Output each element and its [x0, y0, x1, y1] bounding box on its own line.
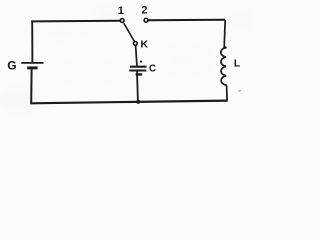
svg-text:K: K: [141, 39, 149, 50]
capacitor C bottom plate: [129, 70, 146, 72]
minus charge mark below capacitor bottom plate: [136, 73, 143, 75]
speck artifact right of bottom-right corner: [238, 90, 241, 92]
capacitor C top plate: [130, 66, 147, 68]
faint scan mottle: [0, 6, 252, 112]
wire: battery G bottom lead: [30, 69, 32, 103]
switch contact 1 (open circle): [120, 19, 124, 23]
battery G short plate: [27, 66, 37, 69]
wire: top horizontal from contact 2 to top-right corner: [148, 19, 225, 21]
svg-text:1: 1: [118, 5, 124, 17]
svg-text:C: C: [149, 64, 156, 75]
svg-text:L: L: [234, 58, 240, 69]
wire: capacitor bottom lead down to junction: [136, 71, 139, 101]
wire: pivot of K down to capacitor: [136, 45, 137, 66]
plus charge dot above capacitor top plate: [140, 61, 142, 63]
wire: top horizontal from battery corner to contact 1: [31, 20, 120, 23]
junction node dot on bottom wire: [136, 100, 140, 104]
wire: left branch top lead of battery G: [31, 21, 33, 63]
wire: right branch with inductor L coil: [221, 20, 227, 101]
switch contact 2 (open circle): [144, 18, 148, 22]
switch K pivot (open circle): [133, 42, 137, 46]
wire: bottom horizontal: [30, 101, 227, 104]
battery G long plate: [21, 62, 43, 64]
switch K lever from contact 1 to pivot: [124, 23, 135, 42]
svg-text:2: 2: [141, 5, 147, 17]
svg-text:G: G: [7, 59, 16, 73]
